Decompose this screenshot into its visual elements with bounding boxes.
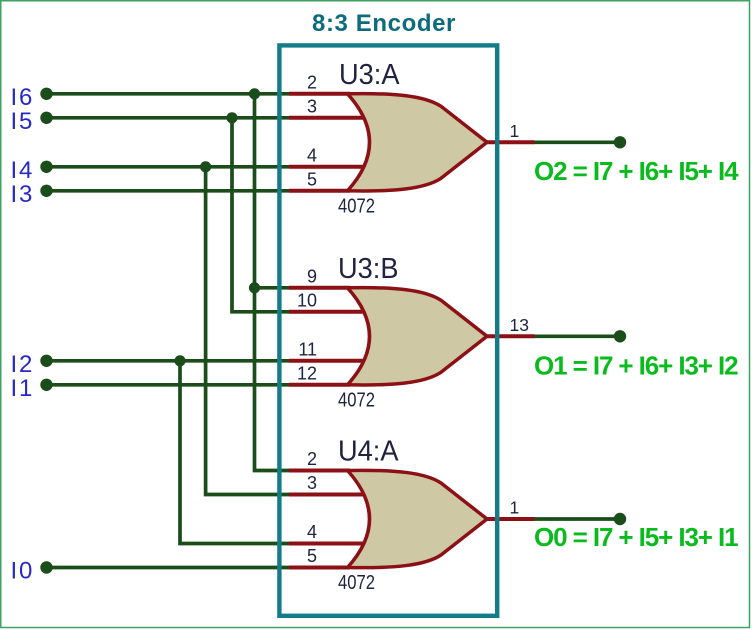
terminal dot I1 — [40, 379, 52, 391]
wire I4 vertical to U4:A pin 3 — [206, 167, 289, 495]
svg-text:3: 3 — [307, 97, 317, 117]
svg-text:U3:B: U3:B — [338, 253, 399, 285]
svg-text:I1: I1 — [11, 375, 35, 402]
svg-text:9: 9 — [307, 267, 317, 287]
wire output O2 — [534, 140, 620, 144]
or-gate U3:A body — [348, 94, 488, 191]
svg-text:2: 2 — [307, 73, 317, 93]
junction on I2 — [174, 355, 185, 366]
svg-text:U3:A: U3:A — [339, 59, 400, 91]
svg-text:O0 = I7 + I5+ I3+ I1: O0 = I7 + I5+ I3+ I1 — [534, 522, 738, 552]
svg-text:I3: I3 — [11, 181, 35, 208]
terminal dot I2 — [40, 355, 52, 367]
wire output O0 — [534, 517, 620, 521]
svg-text:8:3 Encoder: 8:3 Encoder — [312, 10, 456, 37]
svg-text:5: 5 — [307, 546, 317, 566]
or-gate U3:A pin stubs — [289, 94, 535, 191]
terminal dot I6 — [40, 88, 52, 100]
sub-circuit box — [279, 45, 497, 615]
svg-text:1: 1 — [510, 121, 520, 141]
svg-text:I6: I6 — [11, 84, 35, 111]
junction on I6 — [249, 88, 260, 99]
svg-text:I2: I2 — [11, 351, 35, 378]
svg-text:O2 = I7 + I6+ I5+ I4: O2 = I7 + I6+ I5+ I4 — [534, 156, 739, 186]
terminal dot I0 — [40, 561, 52, 573]
or-gate U4:A pin stubs — [289, 471, 535, 568]
svg-text:I0: I0 — [11, 558, 35, 585]
svg-text:1: 1 — [510, 498, 520, 518]
or-gate U4:A body — [348, 470, 488, 567]
wire I5 — [47, 116, 290, 120]
svg-text:4: 4 — [307, 522, 317, 542]
svg-text:13: 13 — [510, 315, 529, 335]
svg-text:4072: 4072 — [338, 389, 375, 411]
svg-text:3: 3 — [307, 473, 317, 493]
terminal dot I3 — [40, 185, 52, 197]
wire I6 — [47, 92, 290, 96]
svg-text:4: 4 — [307, 146, 317, 166]
or-gate U3:B pin stubs — [289, 288, 535, 385]
svg-text:5: 5 — [307, 170, 317, 190]
terminal dot I4 — [40, 161, 52, 173]
junction at U3:B pin 9 — [249, 282, 260, 293]
svg-text:2: 2 — [307, 449, 317, 469]
terminal dot I5 — [40, 112, 52, 124]
svg-text:I5: I5 — [11, 108, 35, 135]
svg-text:11: 11 — [298, 340, 317, 360]
terminal dot O0 — [614, 513, 626, 525]
wire I2 vertical to U4:A pin 4 — [180, 361, 289, 544]
wire I0 — [47, 566, 290, 570]
junction on I5 — [226, 112, 237, 123]
wire I3 — [47, 189, 290, 193]
junction on I4 — [200, 161, 211, 172]
wire I5 vertical to U3:B pin 10 — [232, 118, 289, 312]
svg-text:10: 10 — [297, 291, 317, 311]
svg-text:O1 = I7 + I6+ I3+ I2: O1 = I7 + I6+ I3+ I2 — [534, 351, 738, 381]
terminal dot O1 — [614, 330, 626, 342]
svg-text:U4:A: U4:A — [338, 436, 399, 468]
wire output O1 — [534, 334, 620, 338]
svg-text:4072: 4072 — [338, 195, 375, 217]
wire I1 — [47, 383, 290, 387]
wire I6 vertical to U3:B pin 9 and U4:A pin 2 — [255, 94, 290, 471]
svg-text:4072: 4072 — [338, 572, 375, 594]
svg-text:12: 12 — [297, 364, 317, 384]
wire I4 — [47, 165, 290, 169]
terminal dot O2 — [614, 136, 626, 148]
svg-text:I4: I4 — [11, 157, 35, 184]
or-gate U3:B body — [348, 288, 488, 385]
wire I2 — [47, 359, 290, 363]
